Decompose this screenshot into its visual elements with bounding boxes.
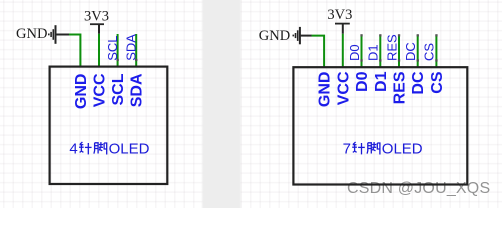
wire D1 net stub (right) xyxy=(379,35,381,67)
hanzi 脚 (left) xyxy=(94,142,107,154)
wire-end tick D1 (right) xyxy=(379,34,381,36)
svg-text:DC: DC xyxy=(410,71,427,95)
wire-end tick DC (right) xyxy=(417,34,419,36)
svg-text:VCC: VCC xyxy=(92,73,109,107)
wire 3V3 net (right): vertical into pin VCC xyxy=(342,34,344,67)
svg-text:GND: GND xyxy=(73,74,90,110)
svg-text:4: 4 xyxy=(69,141,77,158)
svg-text:3V3: 3V3 xyxy=(84,8,109,24)
svg-text:SDA: SDA xyxy=(123,34,138,61)
hanzi 针 (right) xyxy=(352,142,365,154)
hanzi 脚 (right) xyxy=(367,142,380,154)
svg-text:D1: D1 xyxy=(366,44,381,61)
svg-text:CS: CS xyxy=(422,43,437,61)
wire SDA net stub (left) xyxy=(135,34,137,67)
junction dot pin SCL (left) xyxy=(117,59,119,61)
svg-text:VCC: VCC xyxy=(335,71,352,105)
wire CS net stub (right) xyxy=(435,35,437,67)
junction dot pin DC (right) xyxy=(417,59,419,61)
svg-text:RES: RES xyxy=(392,71,409,104)
wire RES net stub (right) xyxy=(398,35,400,67)
svg-text:CS: CS xyxy=(429,71,446,94)
svg-text:GND: GND xyxy=(16,26,47,42)
svg-text:OLED: OLED xyxy=(109,141,150,158)
svg-text:SCL: SCL xyxy=(105,36,120,61)
hanzi 针 (left) xyxy=(79,142,92,154)
ground symbol GND (right module) xyxy=(293,27,312,44)
wire GND net (left): horizontal then down to pin GND xyxy=(69,35,80,67)
svg-text:OLED: OLED xyxy=(382,141,423,158)
wire 3V3 net (left): vertical into pin VCC xyxy=(98,34,100,67)
junction dot pin CS (right) xyxy=(435,59,437,61)
svg-text:SDA: SDA xyxy=(129,73,146,107)
svg-text:D1: D1 xyxy=(373,71,390,92)
power symbol 3V3 (right module) xyxy=(335,24,350,34)
svg-text:7: 7 xyxy=(343,141,351,158)
wire SCL net stub (left) xyxy=(117,34,119,67)
wire-end tick CS (right) xyxy=(435,34,437,36)
svg-text:GND: GND xyxy=(259,28,290,44)
svg-text:D0: D0 xyxy=(354,71,371,92)
svg-text:DC: DC xyxy=(403,42,418,61)
junction dot pin RES (right) xyxy=(398,59,400,61)
ground symbol GND (left module) xyxy=(49,25,69,44)
junction dot pin D0 (right) xyxy=(360,59,362,61)
junction dot pin SDA (left) xyxy=(135,59,137,61)
svg-text:SCL: SCL xyxy=(110,73,127,105)
OLED module body box (right, 7-pin) xyxy=(293,67,467,184)
wire DC net stub (right) xyxy=(417,35,419,67)
wire D0 net stub (right) xyxy=(361,35,363,67)
svg-text:3V3: 3V3 xyxy=(327,7,352,23)
OLED module body box (left, 4-pin) xyxy=(50,67,168,184)
wire GND net (right): horizontal then down to pin GND xyxy=(312,36,325,68)
power symbol 3V3 (left module) xyxy=(90,24,104,34)
junction dot pin D1 (right) xyxy=(379,59,381,61)
svg-text:D0: D0 xyxy=(347,44,362,61)
wire-end tick D0 (right) xyxy=(360,34,362,36)
svg-text:RES: RES xyxy=(384,34,399,61)
watermark xyxy=(347,180,490,198)
svg-text:GND: GND xyxy=(317,72,334,108)
wire-end tick RES (right) xyxy=(398,34,400,36)
